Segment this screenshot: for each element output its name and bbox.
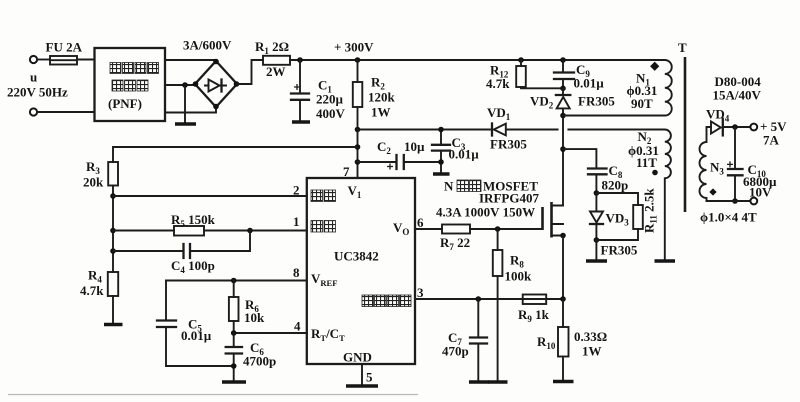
- svg-text:4.3A 1000V 150W: 4.3A 1000V 150W: [436, 205, 535, 220]
- wire pin3 sense: [415, 298, 563, 300]
- svg-text:T: T: [678, 40, 687, 55]
- output terminal bottom: [750, 198, 757, 205]
- capacitor C3: [432, 130, 450, 175]
- svg-text:0.01µ: 0.01µ: [574, 76, 605, 91]
- node junction: [732, 124, 738, 130]
- svg-text:FR305: FR305: [490, 137, 527, 152]
- ground: [175, 122, 196, 126]
- winding N1: [650, 60, 672, 116]
- wire N1 bottom: [563, 115, 665, 117]
- capacitor C4: [113, 231, 250, 259]
- node junction: [247, 228, 253, 234]
- svg-text:4700p: 4700p: [243, 354, 276, 369]
- wire: [37, 111, 94, 113]
- diode VD1: [492, 124, 506, 136]
- svg-text:7: 7: [343, 164, 350, 179]
- resistor R3: [108, 162, 118, 186]
- svg-text:3A/600V: 3A/600V: [183, 38, 232, 53]
- svg-text:R1 2Ω: R1 2Ω: [255, 39, 289, 56]
- svg-text:R11 2.5k: R11 2.5k: [642, 188, 659, 233]
- node junction: [355, 144, 361, 150]
- wire: [165, 84, 196, 86]
- diode VD2: [556, 88, 570, 118]
- diode VD4: [711, 119, 750, 136]
- node junction: [355, 159, 361, 165]
- wire: [237, 60, 263, 84]
- scan artifact streak: [8, 394, 418, 396]
- node junction: [438, 127, 444, 133]
- node junction: [476, 296, 482, 302]
- svg-text:6: 6: [417, 215, 424, 230]
- capacitor C5: [157, 281, 234, 367]
- PNF line filter box: [95, 48, 166, 121]
- winding N2: [652, 130, 671, 179]
- wire pin2 feedback: [113, 195, 307, 197]
- capacitor C9: [554, 60, 574, 91]
- svg-text:10µ: 10µ: [404, 139, 425, 154]
- svg-text:5: 5: [366, 370, 373, 385]
- transformer core T: [684, 57, 687, 212]
- wire R5 line: [113, 230, 174, 232]
- svg-text:90T: 90T: [631, 96, 653, 111]
- svg-text:0.33Ω: 0.33Ω: [574, 329, 607, 344]
- svg-text:220V 50Hz: 220V 50Hz: [7, 85, 68, 100]
- resistor R12: [516, 60, 563, 88]
- wire pin6 gate drive: [415, 228, 442, 230]
- resistor R6: [229, 281, 239, 334]
- wire to R3: [113, 147, 358, 162]
- fuse FU2A: [50, 56, 77, 65]
- node junction: [518, 57, 524, 63]
- svg-text:4.7k: 4.7k: [486, 76, 510, 91]
- label N-channel MOSFET spec: [436, 179, 539, 220]
- svg-text:GND: GND: [343, 350, 372, 365]
- wire pin7 vertical: [357, 130, 359, 179]
- resistor R11: [596, 193, 642, 240]
- svg-text:0.01µ: 0.01µ: [449, 147, 480, 162]
- node junction: [495, 226, 501, 232]
- wire pin8: [166, 280, 307, 282]
- svg-text:3: 3: [417, 285, 424, 300]
- wire pin4: [234, 332, 307, 334]
- node junction: [355, 127, 361, 133]
- svg-text:R5 150k: R5 150k: [171, 212, 216, 229]
- svg-text:R7 22: R7 22: [440, 235, 470, 252]
- svg-text:4.7k: 4.7k: [80, 283, 104, 298]
- svg-text:N: N: [444, 179, 454, 194]
- svg-text:+ 300V: + 300V: [334, 40, 374, 55]
- svg-text:15A/40V: 15A/40V: [713, 88, 762, 103]
- node junction: [182, 82, 188, 88]
- resistor R5: [174, 226, 204, 236]
- svg-text:120k: 120k: [368, 90, 396, 105]
- wire: [37, 59, 50, 61]
- resistor R8: [488, 229, 508, 382]
- svg-text:2: 2: [293, 183, 300, 198]
- svg-text:7A: 7A: [763, 133, 780, 148]
- ground: [346, 384, 378, 388]
- svg-text:470p: 470p: [442, 344, 469, 359]
- svg-text:FR305: FR305: [578, 94, 615, 109]
- svg-text:R9 1k: R9 1k: [518, 307, 550, 324]
- bridge rectifier 3A/600V: [193, 59, 240, 110]
- resistor R10: [553, 299, 574, 382]
- wire gate: [470, 228, 543, 230]
- resistor R2: [353, 60, 363, 130]
- svg-text:8: 8: [293, 265, 300, 280]
- svg-text:UC3842: UC3842: [334, 249, 379, 264]
- capacitor C7: [469, 299, 489, 382]
- svg-text:1W: 1W: [582, 344, 602, 359]
- wire N2 to ground: [664, 178, 666, 260]
- svg-text:(PNF): (PNF): [108, 96, 142, 111]
- svg-text:11T: 11T: [636, 155, 657, 170]
- svg-text:2W: 2W: [266, 64, 286, 79]
- svg-text:220µ: 220µ: [316, 92, 344, 107]
- capacitor C2 10µ: [358, 155, 442, 170]
- winding N3: [700, 127, 717, 201]
- capacitor C6: [222, 333, 246, 382]
- svg-text:FR305: FR305: [601, 243, 638, 258]
- ground: [655, 259, 676, 263]
- wire VD3 to ground: [595, 240, 597, 261]
- IC U1 UC3842 box: [307, 178, 415, 364]
- node junction: [560, 146, 566, 152]
- wire +300V rail: [290, 59, 665, 61]
- resistor R9: [523, 295, 547, 305]
- output terminal +5V: [750, 124, 757, 131]
- svg-text:C4 100p: C4 100p: [171, 258, 215, 275]
- capacitor C1: [291, 60, 310, 122]
- wire left vertical: [112, 186, 114, 273]
- wire to N2: [506, 129, 665, 131]
- svg-text:1W: 1W: [371, 105, 391, 120]
- node junction: [231, 330, 237, 336]
- node junction: [110, 228, 116, 234]
- node junction: [560, 296, 566, 302]
- input terminal bottom: [30, 108, 37, 115]
- svg-text:1: 1: [293, 214, 300, 229]
- svg-text:0.01µ: 0.01µ: [181, 328, 212, 343]
- resistor R1: [263, 56, 290, 65]
- svg-text:100k: 100k: [505, 269, 533, 284]
- wire: [184, 85, 186, 124]
- diode VD3: [590, 193, 603, 243]
- input terminal top: [30, 56, 37, 63]
- resistor R4: [104, 272, 123, 325]
- node junction: [560, 57, 566, 63]
- wire: [165, 59, 216, 61]
- wire output bottom rail: [707, 200, 751, 202]
- svg-text:820p: 820p: [602, 178, 629, 193]
- node junction: [355, 57, 361, 63]
- svg-text:4: 4: [294, 319, 301, 334]
- svg-text:FU 2A: FU 2A: [46, 40, 83, 55]
- svg-text:IRFPG407: IRFPG407: [479, 191, 539, 206]
- wire: [77, 59, 95, 61]
- svg-text:20k: 20k: [83, 175, 104, 190]
- capacitor C8: [563, 149, 607, 196]
- resistor R7: [442, 225, 470, 234]
- wire drain: [562, 116, 564, 206]
- wire source: [562, 236, 564, 300]
- svg-text:u: u: [30, 70, 37, 85]
- svg-text:ϕ1.0×4 4T: ϕ1.0×4 4T: [700, 210, 757, 225]
- node junction: [297, 57, 303, 63]
- node junction: [438, 159, 444, 165]
- svg-text:400V: 400V: [316, 106, 346, 121]
- ground: [586, 259, 607, 263]
- transistor Q1 MOSFET: [543, 202, 566, 238]
- capacitor C10: [727, 127, 743, 204]
- wire VCC line: [358, 129, 491, 131]
- node junction: [110, 248, 116, 254]
- svg-text:10k: 10k: [244, 310, 265, 325]
- node junction: [231, 278, 237, 284]
- node junction: [110, 193, 116, 199]
- wire: [165, 107, 216, 113]
- wire pin1 comp: [204, 230, 307, 232]
